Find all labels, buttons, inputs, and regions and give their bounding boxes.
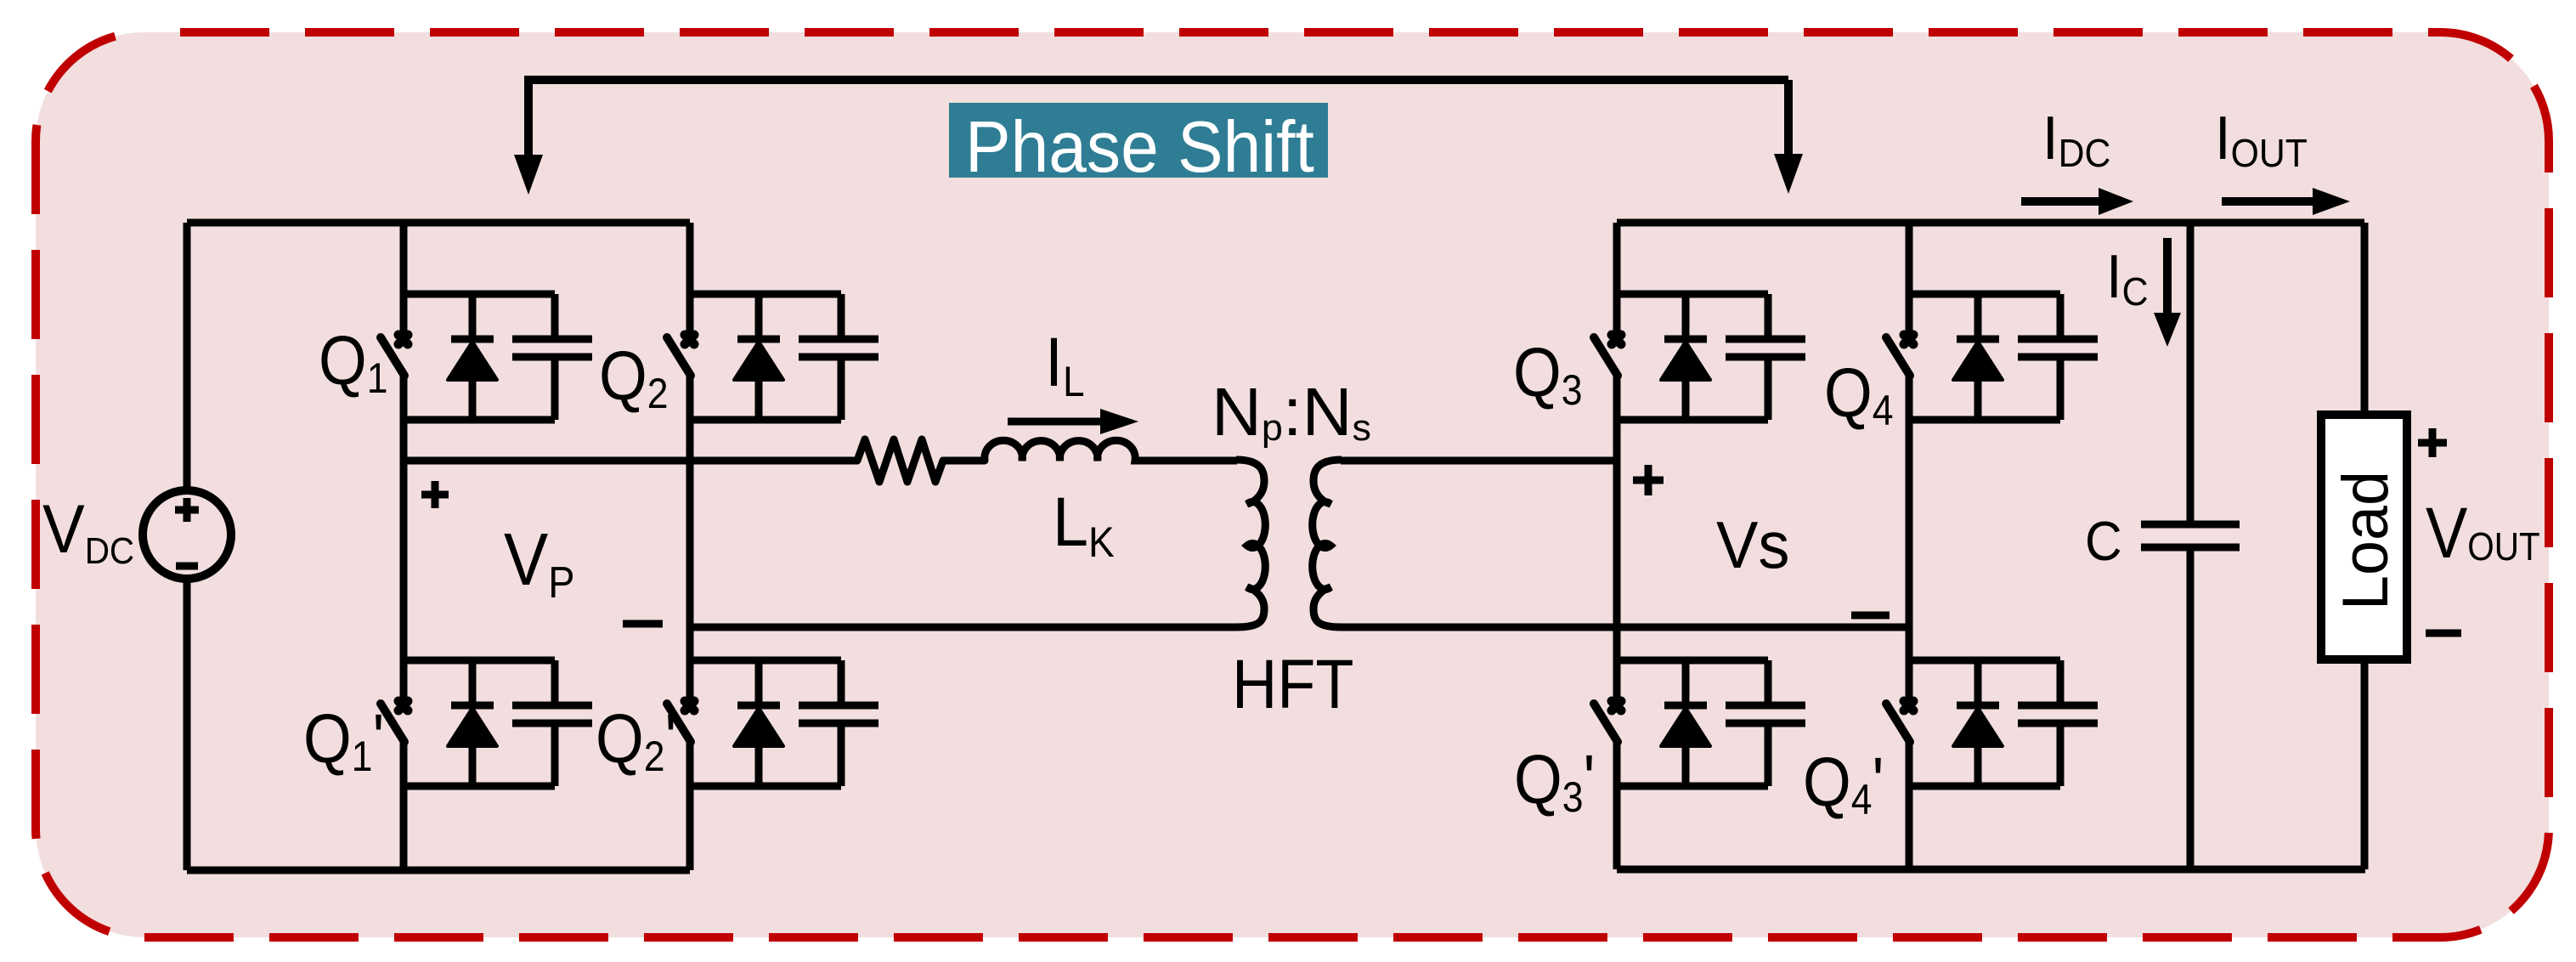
secondary leg 3 wire xyxy=(1613,223,1621,869)
IDC current arrow shaft xyxy=(2021,197,2099,206)
primary top rail wire xyxy=(187,219,690,227)
svg-text:Q3': Q3' xyxy=(1514,741,1595,822)
IC current arrowhead xyxy=(2154,313,2181,347)
svg-text:HFT: HFT xyxy=(1232,644,1353,723)
phase shift left arrowhead xyxy=(514,155,543,195)
secondary return wire xyxy=(1341,624,1909,631)
svg-text:Phase Shift: Phase Shift xyxy=(965,106,1314,188)
phase shift right arrowhead xyxy=(1774,154,1803,194)
svg-text:Np:Ns: Np:Ns xyxy=(1212,375,1371,450)
transistor Q2 switch cell xyxy=(667,294,878,420)
transistor Q3' switch cell xyxy=(1594,660,1805,786)
phase shift right drop wire xyxy=(1784,80,1793,154)
phase shift label box xyxy=(949,103,1328,178)
primary bottom rail wire xyxy=(187,867,690,874)
IOUT current arrowhead xyxy=(2313,188,2350,215)
transistor Q1' switch cell xyxy=(381,660,592,786)
Vout minus sign xyxy=(2426,630,2461,637)
capacitor C stems xyxy=(2187,223,2195,869)
transformer secondary winding xyxy=(1313,460,1342,627)
Vp plus sign xyxy=(421,481,449,508)
IL current arrow shaft xyxy=(1008,418,1100,426)
svg-text:C: C xyxy=(2085,511,2122,572)
primary leg 2 wire xyxy=(686,223,694,870)
inductor LK xyxy=(985,440,1237,461)
resistor (series R) xyxy=(857,439,985,482)
transformer primary winding xyxy=(1236,460,1265,627)
transistor Q1 switch cell xyxy=(381,294,592,420)
IOUT current arrow shaft xyxy=(2222,197,2313,206)
secondary top rail wire xyxy=(1617,219,2364,227)
IDC current arrowhead xyxy=(2099,188,2133,215)
secondary bottom rail wire xyxy=(1617,866,2365,874)
svg-text:Vs: Vs xyxy=(1716,508,1789,582)
transistor Q3 switch cell xyxy=(1594,294,1805,420)
transistor Q2' switch cell xyxy=(667,660,878,786)
primary return wire (node B) xyxy=(690,624,1237,631)
load branch wires xyxy=(2361,223,2369,869)
IC current arrow shaft xyxy=(2163,238,2172,313)
secondary top wire xyxy=(1341,457,1617,465)
phase shift control wire xyxy=(528,80,1788,155)
VDC minus sign xyxy=(176,563,198,570)
svg-text:Q2': Q2' xyxy=(596,700,676,781)
Vp minus sign xyxy=(623,620,663,628)
load resistor box xyxy=(2321,415,2407,659)
svg-text:Q4': Q4' xyxy=(1803,744,1884,824)
VDC terminal wires xyxy=(184,223,191,870)
Vout plus sign xyxy=(2418,428,2447,457)
svg-text:Load: Load xyxy=(2329,471,2401,610)
Vs plus sign xyxy=(1633,465,1664,495)
VDC plus sign xyxy=(175,498,199,522)
transistor Q4 switch cell xyxy=(1886,294,2098,420)
voltage source VDC circle xyxy=(143,490,231,579)
IL current arrowhead xyxy=(1100,409,1138,434)
Vs minus sign xyxy=(1851,612,1890,620)
capacitor C plates xyxy=(2141,524,2240,547)
svg-text:Q1': Q1' xyxy=(303,700,384,781)
node A wire (leg1 midpoint to resistor) xyxy=(404,457,857,465)
primary leg 1 wire xyxy=(400,223,408,870)
secondary leg 4 wire xyxy=(1906,223,1913,869)
transistor Q4' switch cell xyxy=(1886,660,2098,786)
